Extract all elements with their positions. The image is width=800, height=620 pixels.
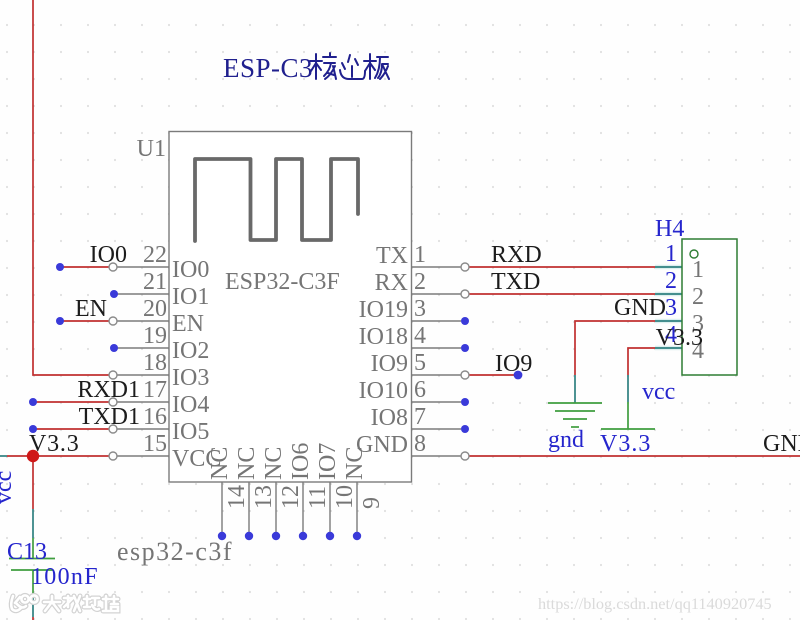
U1 left inside pin names — [172, 257, 221, 472]
svg-text:10: 10 — [332, 485, 358, 509]
node pin3 end — [461, 317, 469, 325]
svg-text:12: 12 — [278, 485, 304, 509]
capacitor C13 — [9, 538, 55, 594]
node EN dangling end — [56, 317, 64, 325]
svg-text:2: 2 — [692, 284, 704, 310]
wire net TXD1 — [33, 428, 109, 430]
svg-text:ESP-C3: ESP-C3 — [223, 53, 313, 83]
svg-text:7: 7 — [414, 404, 426, 430]
svg-text:EN: EN — [75, 296, 107, 322]
wire net TXD — [469, 293, 655, 295]
U1 left pin stubs — [115, 267, 169, 456]
svg-text:H4: H4 — [655, 216, 684, 242]
H4 outside pin numbers — [665, 241, 677, 348]
svg-text:IO0: IO0 — [90, 242, 127, 268]
ground symbol — [548, 403, 602, 427]
vcc power symbol — [601, 402, 655, 429]
H4 inside pin numbers — [692, 257, 704, 364]
node RXD1 dangling end — [29, 398, 37, 406]
connector H4 body — [682, 239, 737, 375]
svg-text:3: 3 — [414, 296, 426, 322]
svg-text:RXD: RXD — [491, 242, 542, 268]
svg-text:C13: C13 — [7, 539, 47, 565]
svg-text:11: 11 — [305, 486, 331, 509]
svg-text:21: 21 — [143, 269, 167, 295]
wire net IO0 — [60, 266, 109, 268]
svg-text:17: 17 — [143, 377, 167, 403]
svg-text:IO4: IO4 — [172, 392, 209, 418]
node pin6 end — [461, 398, 469, 406]
svg-text:gnd: gnd — [548, 427, 584, 453]
node pin21 end — [110, 290, 118, 298]
component U1 body — [169, 132, 412, 483]
svg-text:18: 18 — [143, 350, 167, 376]
svg-text:1: 1 — [414, 242, 426, 268]
node TXD1 dangling end — [29, 425, 37, 433]
svg-text:13: 13 — [251, 485, 277, 509]
wire net GND to H4 pin3 — [575, 321, 655, 375]
svg-text:9: 9 — [359, 497, 385, 509]
svg-text:IO9: IO9 — [495, 351, 532, 377]
svg-text:TXD: TXD — [491, 269, 540, 295]
U1 right inside pin names — [356, 243, 408, 458]
U1 bottom pin numbers rotated — [224, 485, 385, 509]
svg-text:14: 14 — [224, 485, 250, 509]
wire vcc lead teal — [627, 375, 629, 402]
svg-text:8: 8 — [414, 431, 426, 457]
U1 right pin numbers — [414, 242, 426, 457]
wire net EN — [60, 320, 109, 322]
U1 right pin open ends — [461, 263, 469, 460]
svg-text:1: 1 — [665, 241, 677, 267]
H4 pin1 stub — [655, 265, 682, 270]
svg-text:vcc: vcc — [642, 379, 675, 405]
svg-text:IO6: IO6 — [288, 443, 314, 480]
U1 bottom pin stubs — [222, 482, 357, 534]
svg-text:15: 15 — [143, 431, 167, 457]
svg-text:IO18: IO18 — [359, 324, 408, 350]
svg-text:22: 22 — [143, 242, 167, 268]
svg-text:16: 16 — [143, 404, 167, 430]
node pin4 end — [461, 344, 469, 352]
svg-text:IO9: IO9 — [371, 351, 408, 377]
watermark logo bottom left — [11, 595, 118, 611]
svg-text:20: 20 — [143, 296, 167, 322]
wire net V3.3 to H4 pin4 — [628, 348, 655, 375]
U1 bottom inside pin names rotated — [207, 443, 368, 480]
wire net IO9 — [469, 374, 514, 376]
svg-text:2: 2 — [665, 268, 677, 294]
svg-text:IO8: IO8 — [371, 405, 408, 431]
svg-text:19: 19 — [143, 323, 167, 349]
wire net V3.3 vertical to C13 — [32, 456, 34, 509]
char 板 — [364, 54, 389, 79]
svg-text:IO2: IO2 — [172, 338, 209, 364]
U1 left pin open ends — [109, 263, 117, 460]
svg-text:RX: RX — [375, 270, 408, 296]
svg-text:2: 2 — [414, 269, 426, 295]
node IO9 dangling end — [514, 371, 523, 380]
svg-text:6: 6 — [414, 377, 426, 403]
svg-text:RXD1: RXD1 — [77, 377, 140, 403]
svg-text:4: 4 — [414, 323, 426, 349]
svg-text:V3.3: V3.3 — [656, 325, 703, 351]
svg-text:IO5: IO5 — [172, 419, 209, 445]
svg-text:ESP32-C3F: ESP32-C3F — [225, 269, 340, 295]
wire net V3.3 left horizontal — [0, 455, 7, 457]
U1 right pin stubs — [411, 267, 461, 456]
wire below C13 — [32, 594, 34, 617]
svg-text:V3.3: V3.3 — [600, 431, 651, 457]
char 心 — [340, 55, 365, 79]
node IO0 dangling end — [56, 263, 64, 271]
svg-text:3: 3 — [665, 295, 677, 321]
U1 antenna symbol — [195, 159, 358, 241]
svg-text:TX: TX — [376, 243, 408, 269]
H4 pin3 stub — [655, 319, 682, 324]
svg-text:GND: GND — [614, 295, 666, 321]
svg-text:https://blog.csdn.net/qq114092: https://blog.csdn.net/qq1140920745 — [538, 594, 772, 613]
svg-text:IO3: IO3 — [172, 365, 209, 391]
wire gnd lead teal — [574, 375, 576, 403]
svg-text:U1: U1 — [137, 136, 166, 162]
svg-text:IO19: IO19 — [359, 297, 408, 323]
svg-text:IO10: IO10 — [359, 378, 408, 404]
svg-text:esp32-c3f: esp32-c3f — [117, 537, 233, 566]
svg-text:NC: NC — [234, 447, 260, 480]
svg-text:IO1: IO1 — [172, 284, 209, 310]
wire net RXD1 — [33, 401, 109, 403]
node pin19 end — [110, 344, 118, 352]
wire net IO3: long vertical + to pin 18 — [33, 0, 109, 375]
H4 pin4 stub — [655, 346, 682, 351]
svg-text:NC: NC — [261, 447, 287, 480]
H4 pin2 stub — [655, 292, 682, 297]
svg-text:5: 5 — [414, 350, 426, 376]
svg-text:EN: EN — [172, 311, 204, 337]
svg-text:IO0: IO0 — [172, 257, 209, 283]
svg-text:vcc: vcc — [0, 471, 17, 504]
svg-text:NC: NC — [207, 447, 233, 480]
svg-text:GND: GND — [763, 431, 800, 457]
node pin7 end — [461, 425, 469, 433]
svg-text:1: 1 — [692, 257, 704, 283]
svg-text:100nF: 100nF — [31, 564, 99, 590]
H4 pin1 marker circle — [690, 250, 698, 258]
U1 left pin numbers — [143, 242, 167, 457]
junction V3.3 — [27, 450, 39, 462]
wire net GND from pin 8 to right edge — [469, 455, 800, 457]
svg-text:NC: NC — [342, 447, 368, 480]
U1 bottom pin ends — [218, 532, 361, 540]
char 核 — [310, 53, 336, 79]
svg-text:IO7: IO7 — [315, 443, 341, 480]
wire net RXD — [469, 266, 655, 268]
title ESP-C3 core board — [223, 53, 389, 83]
